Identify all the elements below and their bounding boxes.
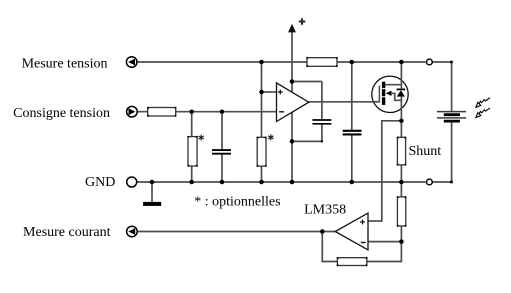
wire non-inverting input stub U1A (262, 91, 277, 93)
wire optional resistor 2 to GND (261, 166, 263, 182)
capacitor decoupling (supply) (312, 120, 331, 124)
junction GND / optional resistor 1 (189, 180, 194, 185)
capacitor C* optional (consigne filter) (212, 150, 231, 154)
pin - symbol U1A (279, 111, 284, 113)
wire shunt bottom to GND rail (400, 165, 402, 182)
connector Mesure courant (arrow out) (127, 226, 138, 237)
op-amp U1B LM358 (current amplifier, pointing left) (335, 213, 368, 250)
junction GND / shunt-gain node (399, 180, 404, 185)
value label * for optional resistor 1 (199, 135, 204, 141)
corner mark top right (450, 61, 453, 64)
junction U1B output / feedback (320, 229, 325, 234)
wire drain vertical from top rail (400, 62, 402, 89)
terminal open circle top right (427, 59, 433, 65)
wire source sense vertical riser to U1B non-inverting input (381, 120, 383, 221)
connector Mesure tension (arrow out) (126, 57, 137, 68)
connector GND (127, 177, 137, 187)
junction + input U1A (259, 90, 264, 95)
wire output capacitor upper lead from top rail (351, 62, 353, 130)
connector Consigne tension (arrow in) (127, 106, 138, 117)
resistor R* optional 2 (257, 137, 267, 167)
op-amp U1A (voltage regulator) (277, 83, 309, 122)
resistor feedback U1B (337, 257, 368, 266)
wire GND net horizontal rail (137, 181, 426, 183)
wire decoupling capacitor upper lead (321, 82, 323, 120)
terminal open circle bottom right (427, 179, 433, 185)
junction supply / decoupling top (290, 79, 295, 84)
junction U1B inverting node (399, 239, 404, 244)
wire source vertical to shunt (400, 97, 402, 138)
battery / photovoltaic cell (437, 112, 466, 122)
junction top rail / drain (399, 60, 404, 65)
wire Mesure courant net to U1B output (137, 231, 335, 233)
wire Mesure tension net (top horizontal rail) (137, 61, 426, 63)
body diode triangle Q1 (397, 90, 405, 96)
transistor Q1 P-MOSFET body circle (372, 76, 408, 112)
pin - symbol U1B (361, 242, 366, 244)
wire drain connection inside Q1 (385, 84, 401, 86)
wire gate lead inside Q1 (372, 101, 379, 103)
svg-text:LM358: LM358 (304, 203, 346, 218)
wire U1A output to MOSFET gate (309, 101, 380, 103)
wire source sense jog horizontal (382, 120, 402, 122)
svg-text:* : optionnelles: * : optionnelles (194, 195, 280, 210)
wire U1B output down to feedback (321, 232, 323, 263)
junction GND / optional capacitor (220, 180, 225, 185)
substrate arrow Q1 (386, 91, 392, 96)
pin + symbol U1A (278, 90, 283, 95)
junction consigne / optional capacitor (220, 109, 225, 114)
body diode cathode bar Q1 (397, 88, 406, 90)
wire optional capacitor top lead (221, 112, 223, 150)
wire bottom right corner to terminal (433, 181, 453, 183)
svg-text:GND: GND (85, 175, 115, 190)
value label * for optional resistor 2 (268, 134, 273, 140)
wire gain resistor to inverting node (400, 226, 402, 242)
wire positive supply vertical (behind U1A, to GND rail) (291, 31, 293, 182)
light ray arrow 1 (476, 98, 490, 108)
capacitor output (top rail to GND) (343, 131, 362, 135)
junction supply / decoupling bottom (290, 139, 295, 144)
gate electrode bar Q1 (378, 86, 380, 103)
wire U1B inverting input stub (368, 241, 401, 243)
wire optional capacitor bottom lead to GND (221, 154, 223, 182)
junction GND / optional resistor 2 (259, 180, 264, 185)
wire optional resistor 1 top (191, 112, 193, 137)
power + supply arrow (288, 24, 296, 33)
wire U1B non-inverting input stub (368, 220, 383, 222)
wire optional resistor 1 bottom to GND (191, 166, 193, 182)
junction source sense node (399, 119, 404, 124)
power + label (299, 18, 306, 24)
junction top rail / output capacitor (350, 60, 355, 65)
wire right vertical to cell top (451, 61, 453, 111)
wire top rail from terminal to right corner (433, 61, 453, 63)
resistor R* optional 1 (187, 136, 198, 167)
wire decoupling branch top (292, 81, 322, 83)
svg-text:Mesure courant: Mesure courant (23, 225, 111, 240)
wire decoupling capacitor lower lead (321, 124, 323, 142)
wire bulk-source link inside Q1 (391, 93, 402, 100)
wire cell bottom to bottom right corner (451, 121, 453, 183)
junction consigne / optional resistor 1 (189, 109, 194, 114)
earth ground symbol (151, 182, 153, 202)
corner mark decoupling loop bottom (321, 140, 323, 142)
light ray arrow 2 (476, 108, 490, 118)
junction GND / earth (150, 180, 155, 185)
corner mark bottom right (450, 181, 453, 184)
junction GND / output capacitor (350, 180, 355, 185)
pin + symbol U1B (360, 220, 365, 225)
wire Consigne tension net to inverting input (137, 111, 276, 113)
wire feedback bottom horizontal (322, 261, 402, 263)
junction GND / supply return (290, 180, 295, 185)
resistor gain (GND to inverting input) (397, 196, 407, 227)
wire decoupling branch bottom (292, 140, 322, 142)
svg-text:Consigne tension: Consigne tension (13, 106, 110, 121)
junction top rail / + input branch (259, 60, 264, 65)
channel bar segments Q1 (382, 82, 385, 88)
svg-text:Mesure tension: Mesure tension (22, 56, 108, 71)
resistor (consigne series) (147, 107, 176, 117)
wire output capacitor lower lead to GND (351, 135, 353, 182)
wire gain resistor from GND rail (400, 182, 402, 197)
wire inverting node down to feedback (400, 242, 402, 262)
wire non-inverting input branch vertical (261, 62, 263, 137)
resistor (mesure tension series, top) (306, 57, 337, 67)
resistor Shunt (397, 137, 407, 166)
svg-text:Shunt: Shunt (409, 144, 442, 159)
